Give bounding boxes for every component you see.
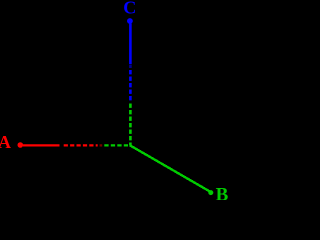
svg-text:C: C	[123, 0, 136, 18]
svg-text:A: A	[0, 132, 11, 152]
svg-text:B: B	[216, 185, 229, 200]
